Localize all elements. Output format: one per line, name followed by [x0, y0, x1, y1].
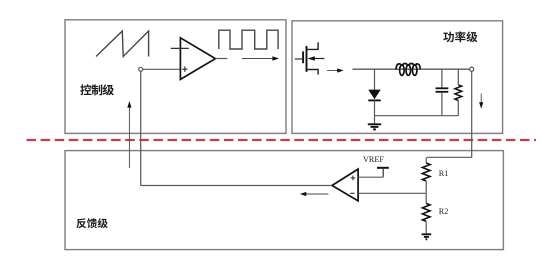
inductor L1	[400, 65, 405, 75]
isolation boundary (red dashed)	[27, 139, 537, 141]
control stage box	[65, 20, 286, 134]
MOSFET Q1 drain lead	[307, 42, 319, 49]
wire feedback riser	[140, 71, 142, 185]
output current arrow	[480, 94, 482, 104]
feedback up arrow	[128, 107, 130, 168]
output node	[470, 67, 474, 71]
U2 - input mark	[350, 192, 354, 194]
U2 + input mark	[351, 176, 356, 181]
label 控制级	[80, 84, 91, 95]
VREF source bar	[377, 167, 389, 169]
svg-text:R1: R1	[439, 169, 449, 178]
VREF stem wire	[382, 168, 384, 177]
power stage box	[292, 21, 503, 134]
output capacitor C1	[441, 69, 443, 87]
error amplifier U2	[332, 169, 358, 201]
U2 output wire	[141, 185, 332, 187]
comparator output stub	[215, 58, 227, 60]
output direction arrow	[242, 58, 273, 60]
MOSFET Q1 gate lead	[295, 58, 303, 60]
wire node to comparator + input	[143, 68, 181, 70]
feedback direction arrow	[305, 193, 328, 195]
sawtooth ramp waveform	[96, 31, 149, 57]
PWM square waveform	[219, 30, 278, 49]
MOSFET Q1 gate bar	[302, 51, 304, 63]
feedback sense wire	[427, 71, 472, 157]
MOSFET Q1 source lead	[307, 70, 319, 75]
resistor R2	[422, 203, 430, 221]
MOSFET Q1 channel bar	[306, 46, 308, 72]
resistor R1	[425, 157, 427, 163]
diode D1	[368, 90, 380, 100]
svg-text:R2: R2	[439, 207, 449, 216]
node	[139, 67, 143, 71]
freewheel diode D1 branch wire	[374, 69, 376, 90]
comparator - input stub	[171, 47, 189, 49]
label 反馈级	[76, 218, 86, 228]
power stage bottom wire	[375, 115, 459, 117]
feedback ground	[422, 233, 432, 235]
label 功率级	[443, 32, 454, 43]
feedback stage box	[65, 151, 503, 250]
PWM comparator U1	[180, 38, 215, 80]
switch-node rail wire	[352, 68, 469, 70]
power ground	[368, 123, 381, 125]
MOSFET Q1 body arrow	[313, 58, 324, 60]
load resistor	[457, 69, 459, 85]
wire VREF to U2 + input	[358, 176, 383, 178]
drive direction arrow	[327, 70, 338, 72]
svg-text:VREF: VREF	[363, 155, 384, 164]
wire divider tap to U2 - input	[358, 192, 426, 194]
comparator + input mark	[182, 67, 187, 72]
